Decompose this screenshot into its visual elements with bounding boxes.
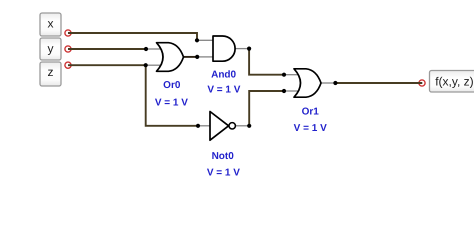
- terminal x: [65, 30, 71, 36]
- wire And0 output to Or1 input A: [249, 49, 284, 75]
- wire Or1 output to f: [335, 82, 422, 84]
- lead And0 output: [235, 48, 249, 50]
- lead Not0 input: [198, 125, 210, 127]
- lead Or0 input B: [146, 64, 161, 66]
- svg-text:Or0: Or0: [163, 80, 181, 91]
- lead And0 input A: [197, 39, 213, 41]
- wire y: [68, 48, 146, 50]
- svg-text:V = 1 V: V = 1 V: [207, 168, 240, 179]
- junction dot Or1 input A: [282, 73, 286, 77]
- terminal z: [65, 62, 71, 68]
- svg-text:z: z: [48, 65, 54, 79]
- wire x: [68, 33, 197, 40]
- junction dot Or1 input B: [282, 89, 286, 93]
- svg-text:V = 1 V: V = 1 V: [155, 97, 188, 108]
- input box z: [40, 62, 61, 86]
- svg-text:Or1: Or1: [302, 107, 320, 118]
- lead And0 input B: [197, 56, 213, 58]
- lead Not0 output: [236, 125, 250, 127]
- svg-text:V = 1 V: V = 1 V: [207, 85, 240, 96]
- svg-text:V = 1 V: V = 1 V: [294, 123, 327, 134]
- junction dot Or1 output: [333, 81, 337, 85]
- lead Or1 input B: [284, 90, 299, 92]
- input box x: [40, 13, 61, 36]
- junction dot Or0 input B: [144, 63, 148, 67]
- wire Not0 output to Or1 input B: [249, 91, 284, 126]
- wire z branch to Not0: [146, 65, 198, 126]
- input box y: [40, 38, 61, 60]
- junction dot And0 input A: [195, 38, 199, 42]
- terminal f: [419, 80, 425, 86]
- svg-text:f(x,y, z): f(x,y, z): [435, 75, 473, 89]
- wire Or0 output to And0 input: [184, 56, 198, 58]
- junction dot Not0 output: [247, 124, 251, 128]
- junction dot Or0 input A: [144, 47, 148, 51]
- terminal y: [65, 46, 71, 52]
- or-gate Or0: [157, 43, 184, 72]
- svg-text:Not0: Not0: [212, 151, 235, 162]
- output box f: [430, 71, 474, 93]
- or-gate Or1: [294, 69, 321, 97]
- svg-text:x: x: [48, 16, 54, 30]
- svg-text:And0: And0: [211, 70, 236, 81]
- not-gate Not0: [210, 112, 235, 141]
- junction dot Not0 input: [196, 124, 200, 128]
- junction dot And0 input B: [195, 55, 199, 59]
- junction dot And0 output: [247, 47, 251, 51]
- wire z: [68, 64, 146, 66]
- and-gate And0: [213, 36, 235, 61]
- svg-text:y: y: [48, 41, 54, 55]
- lead Or1 input A: [284, 74, 299, 76]
- lead Or0 input A: [146, 48, 161, 50]
- lead Or1 output: [321, 82, 335, 84]
